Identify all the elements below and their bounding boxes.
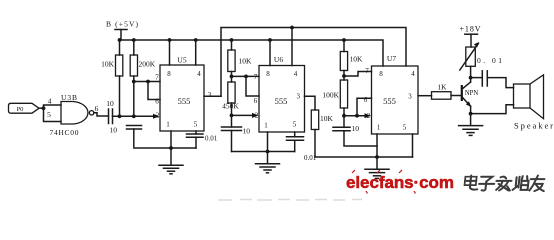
wire U5 pin7 link: [132, 80, 160, 84]
svg-text:8: 8: [167, 70, 171, 78]
svg-text:0.01: 0.01: [205, 135, 218, 143]
svg-text:U7: U7: [387, 54, 396, 63]
junction dot collector: [469, 76, 473, 80]
wire signal rail from U5 pin3: [221, 28, 406, 97]
wire VCC rail: [120, 40, 384, 66]
op IC U6 555: [254, 55, 305, 132]
svg-text:100K: 100K: [322, 91, 339, 100]
svg-text:450K: 450K: [222, 102, 239, 111]
op IC U7 555: [364, 54, 418, 134]
capacitor C6 0.01: [471, 56, 514, 88]
node +18V power terminal: [460, 25, 481, 48]
svg-text:3: 3: [208, 91, 212, 99]
wire U6 pin6 link: [244, 75, 259, 97]
wire U5 pin1: [170, 131, 172, 148]
wire stage2 ground run: [232, 150, 295, 163]
wire U7 pin3 stub: [418, 95, 432, 97]
svg-text:2: 2: [255, 112, 259, 120]
svg-text:4: 4: [294, 70, 298, 78]
nand gate U3B 74HC00: [50, 93, 94, 137]
resistor R5 10K load: [311, 110, 333, 157]
wire U7 pin7 link: [342, 72, 371, 78]
svg-text:1K: 1K: [437, 83, 447, 92]
svg-text:U5: U5: [177, 56, 186, 65]
resistor R9 thermistor: [460, 42, 480, 78]
resistor R7 100K: [322, 80, 347, 127]
resistor R4 450K: [222, 82, 239, 127]
resistor R8 1K: [432, 83, 462, 100]
wire U7 pin5: [412, 134, 414, 157]
capacitor C1 10 timing: [110, 126, 142, 147]
wire U5 pin6 link: [146, 80, 160, 100]
svg-text:4: 4: [197, 70, 201, 78]
svg-text:6: 6: [155, 98, 159, 106]
wire gate input pin 5: [44, 108, 62, 121]
transistor Q1 NPN: [462, 78, 479, 114]
svg-text:10K: 10K: [320, 114, 334, 123]
svg-text:555: 555: [178, 96, 191, 106]
wire U5 pin3 stub: [204, 95, 221, 97]
wire trigger to U6 pin2: [230, 113, 259, 118]
wire gate output pin 6: [94, 104, 109, 116]
svg-text:2: 2: [156, 112, 160, 120]
svg-text:10: 10: [243, 127, 251, 136]
svg-text:6: 6: [364, 96, 368, 104]
wire trigger to U5 pin2: [113, 114, 160, 119]
svg-text:7: 7: [254, 73, 258, 81]
svg-text:1: 1: [166, 121, 170, 129]
svg-text:555: 555: [383, 96, 396, 106]
junction dot on signal rail: [290, 26, 294, 30]
svg-text:6: 6: [95, 104, 99, 113]
junction dots on VCC rail: [118, 38, 346, 42]
svg-text:74HC00: 74HC00: [50, 128, 79, 137]
wire U6 pin1: [267, 132, 269, 152]
svg-text:P0: P0: [17, 106, 24, 113]
capacitor C3 10 timing: [222, 127, 251, 152]
node B (+5V) power terminal: [106, 20, 139, 41]
capacitor 10 coupling: [106, 99, 114, 124]
svg-text:1: 1: [264, 122, 268, 130]
svg-text:8: 8: [266, 70, 270, 78]
svg-text:Speaker: Speaker: [514, 121, 553, 131]
svg-text:8: 8: [379, 70, 383, 78]
svg-text:4: 4: [411, 70, 415, 78]
wire U6 pin7 link: [230, 75, 259, 79]
capacitor C5 10 timing: [333, 124, 377, 146]
ground stage3: [365, 169, 389, 178]
svg-text:3: 3: [297, 93, 301, 101]
svg-text:NPN: NPN: [465, 90, 479, 97]
watermark chinese 电子发烧友: [464, 176, 546, 192]
svg-text:3: 3: [408, 93, 412, 101]
wire U5 pin4: [195, 40, 197, 65]
svg-text:U6: U6: [274, 55, 283, 64]
svg-text:7: 7: [155, 74, 159, 82]
svg-text:10: 10: [110, 126, 118, 135]
input tag P0: [9, 103, 46, 113]
wire U6 pin8: [269, 40, 271, 66]
resistor R3 10K: [228, 40, 252, 82]
resistor R6 10K: [340, 40, 363, 80]
svg-text:200K: 200K: [139, 60, 156, 69]
wire U6 pin5: [294, 132, 296, 137]
speaker LS1: [514, 75, 554, 131]
faint cropped caption: [218, 199, 362, 202]
capacitor C2 0.01: [187, 134, 218, 148]
svg-text:10K: 10K: [350, 55, 364, 64]
svg-text:1: 1: [377, 124, 381, 132]
svg-text:10K: 10K: [101, 60, 115, 69]
wire U5 pin5: [195, 131, 197, 134]
svg-text:5: 5: [47, 110, 51, 119]
wire U5 pin8: [169, 40, 171, 65]
svg-text:555: 555: [275, 96, 288, 106]
wire emitter to speaker: [469, 105, 514, 116]
wire gate input pin 4: [44, 97, 62, 109]
svg-text:B (+5V): B (+5V): [106, 20, 139, 29]
op IC U5 555: [155, 56, 212, 132]
watermark elecfans.com: [346, 170, 454, 194]
svg-text:U3B: U3B: [61, 93, 77, 102]
resistor R2 200K: [130, 40, 156, 116]
svg-text:5: 5: [293, 121, 297, 129]
svg-text:5: 5: [403, 124, 407, 132]
svg-text:10K: 10K: [239, 57, 253, 66]
svg-text:elecfans·com: elecfans·com: [346, 173, 454, 192]
wire U6 pin3 stub: [305, 96, 316, 110]
svg-text:+18V: +18V: [460, 25, 481, 34]
wire trigger to U7 pin2: [342, 113, 371, 118]
ground emitter: [459, 114, 483, 136]
svg-text:10: 10: [352, 124, 360, 133]
svg-text:4: 4: [48, 97, 52, 106]
wire U7 pin6 link: [355, 98, 371, 117]
wire stage1 ground run: [134, 146, 196, 164]
resistor R1 10K: [101, 40, 123, 116]
ground stage1: [159, 165, 183, 174]
svg-text:2: 2: [367, 112, 371, 120]
ground stage2: [256, 164, 280, 173]
svg-text:7: 7: [365, 67, 369, 75]
wire stage3 ground run: [315, 155, 413, 168]
svg-text:5: 5: [194, 121, 198, 129]
wire U6 pin4 from signal rail: [291, 28, 293, 66]
svg-text:10: 10: [106, 99, 114, 108]
wire U7 pin1: [376, 134, 378, 157]
capacitor C4 0.01: [287, 137, 317, 162]
svg-text:6: 6: [254, 97, 258, 105]
